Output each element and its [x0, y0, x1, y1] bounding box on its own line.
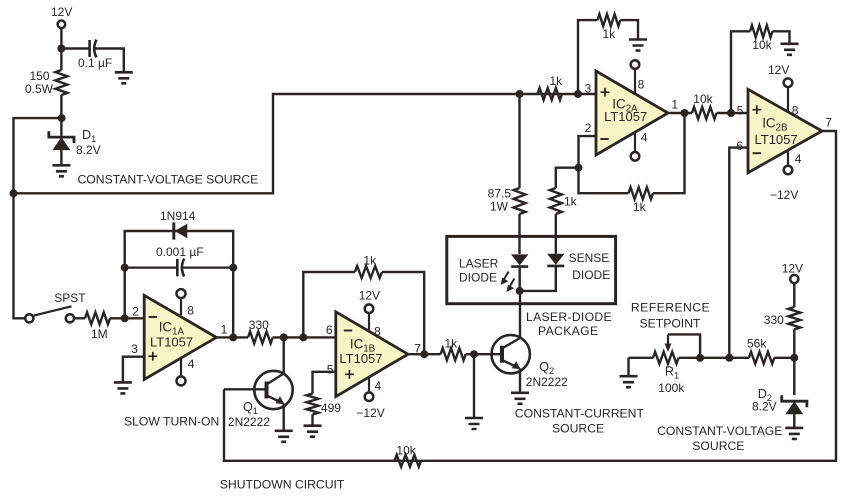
svg-text:12V: 12V [359, 288, 380, 302]
svg-text:8.2V: 8.2V [752, 400, 777, 414]
svg-text:2N2222: 2N2222 [228, 415, 270, 429]
svg-text:SENSE: SENSE [569, 251, 610, 265]
svg-text:330: 330 [249, 318, 269, 332]
svg-text:SOURCE: SOURCE [692, 439, 744, 453]
svg-text:8: 8 [187, 304, 194, 318]
svg-text:8: 8 [638, 77, 645, 91]
svg-text:6: 6 [326, 323, 333, 337]
svg-text:7: 7 [825, 116, 832, 130]
svg-text:SLOW TURN-ON: SLOW TURN-ON [124, 415, 219, 429]
svg-text:499: 499 [321, 401, 341, 415]
svg-text:2: 2 [585, 121, 592, 135]
svg-text:87.5: 87.5 [488, 187, 512, 201]
svg-text:SHUTDOWN CIRCUIT: SHUTDOWN CIRCUIT [220, 477, 345, 491]
svg-text:56k: 56k [747, 337, 767, 351]
svg-text:10k: 10k [693, 92, 713, 106]
svg-text:LASER-DIODE: LASER-DIODE [526, 310, 612, 324]
svg-text:1M: 1M [91, 327, 108, 341]
svg-text:CONSTANT-VOLTAGE: CONSTANT-VOLTAGE [657, 424, 782, 438]
svg-text:1k: 1k [550, 74, 564, 88]
svg-text:1k: 1k [363, 254, 377, 268]
svg-text:CONSTANT-CURRENT: CONSTANT-CURRENT [515, 407, 645, 421]
svg-text:2N2222: 2N2222 [526, 375, 568, 389]
svg-text:1k: 1k [564, 194, 578, 208]
svg-text:−12V: −12V [356, 406, 384, 420]
svg-text:10k: 10k [752, 38, 772, 52]
svg-text:2: 2 [132, 305, 139, 319]
svg-text:1: 1 [671, 98, 678, 112]
svg-text:12V: 12V [768, 63, 789, 77]
svg-text:PACKAGE: PACKAGE [538, 324, 598, 338]
svg-text:5: 5 [737, 103, 744, 117]
svg-text:LT1057: LT1057 [755, 132, 798, 147]
svg-text:12V: 12V [51, 5, 72, 19]
svg-text:DIODE: DIODE [459, 270, 497, 284]
svg-text:4: 4 [641, 131, 648, 145]
svg-text:3: 3 [585, 81, 592, 95]
svg-text:1N914: 1N914 [160, 209, 196, 223]
svg-text:SPST: SPST [54, 291, 86, 305]
svg-text:DIODE: DIODE [572, 268, 610, 282]
svg-text:LASER: LASER [459, 256, 499, 270]
svg-text:7: 7 [414, 342, 421, 356]
svg-text:SOURCE: SOURCE [552, 422, 604, 436]
svg-text:−12V: −12V [770, 188, 798, 202]
svg-text:0.1 µF: 0.1 µF [78, 56, 112, 70]
svg-text:330: 330 [764, 313, 784, 327]
svg-text:SETPOINT: SETPOINT [640, 316, 701, 330]
svg-text:0.001 µF: 0.001 µF [156, 245, 204, 259]
svg-text:LT1057: LT1057 [604, 109, 647, 124]
svg-text:4: 4 [375, 379, 382, 393]
svg-text:8: 8 [792, 103, 799, 117]
svg-text:0.5W: 0.5W [25, 82, 54, 96]
svg-text:1k: 1k [445, 336, 459, 350]
svg-text:4: 4 [795, 152, 802, 166]
svg-text:150: 150 [29, 69, 49, 83]
svg-text:REFERENCE: REFERENCE [631, 301, 710, 315]
svg-text:6: 6 [736, 139, 743, 153]
svg-text:1k: 1k [633, 200, 647, 214]
svg-text:10k: 10k [396, 444, 416, 458]
svg-text:100k: 100k [658, 381, 685, 395]
svg-text:4: 4 [188, 357, 195, 371]
svg-text:1: 1 [221, 323, 228, 337]
svg-text:1k: 1k [603, 27, 617, 41]
svg-text:3: 3 [131, 342, 138, 356]
svg-text:LT1057: LT1057 [150, 335, 193, 350]
svg-text:12V: 12V [782, 262, 803, 276]
svg-text:8.2V: 8.2V [76, 143, 101, 157]
svg-text:8: 8 [374, 325, 381, 339]
svg-text:1W: 1W [490, 200, 509, 214]
svg-text:5: 5 [327, 363, 334, 377]
svg-text:CONSTANT-VOLTAGE SOURCE: CONSTANT-VOLTAGE SOURCE [78, 172, 259, 186]
svg-text:LT1057: LT1057 [339, 351, 382, 366]
